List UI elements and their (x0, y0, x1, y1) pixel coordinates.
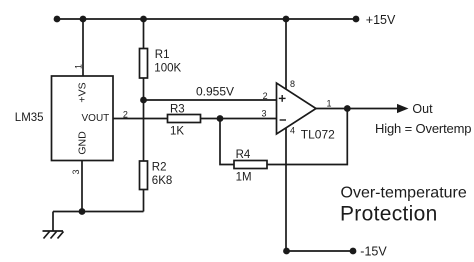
svg-text:GND: GND (76, 131, 88, 155)
junction rail pin1 (80, 16, 87, 23)
node ground junction (79, 208, 86, 215)
svg-text:Out: Out (412, 102, 433, 116)
op-amp plus sign (279, 95, 286, 102)
wire R2 bottom lead (143, 190, 145, 212)
resistor R1 (140, 49, 148, 79)
resistor R4 (234, 161, 267, 169)
junction rail left end (54, 16, 61, 23)
wire LM35 pin1 to rail (82, 19, 84, 76)
wire R1 bottom to R2 top (143, 78, 145, 161)
svg-text:3: 3 (262, 108, 267, 118)
svg-text:3: 3 (71, 169, 81, 174)
svg-text:1K: 1K (170, 126, 184, 138)
resistor R2 (140, 161, 148, 190)
svg-text:1: 1 (73, 64, 83, 69)
wire LM35 VOUT to R3 (113, 118, 168, 120)
svg-text:Protection: Protection (340, 203, 438, 226)
wire ground stub (52, 212, 54, 232)
junction +15V end (353, 16, 360, 23)
svg-text:-15V: -15V (360, 245, 387, 259)
wire bottom -15V rail (286, 250, 353, 252)
svg-text:R4: R4 (236, 149, 251, 161)
wire rail to R1 top (143, 19, 145, 49)
svg-text:+VS: +VS (76, 82, 88, 102)
node inverting input (217, 115, 224, 122)
wire node to R4 left (220, 119, 234, 165)
LM35 body (52, 76, 114, 161)
op-amp minus sign (280, 119, 286, 121)
junction -15V rail left (283, 248, 290, 255)
ground (43, 231, 64, 239)
arrow Out (397, 104, 409, 113)
junction -15V rail right (350, 248, 357, 255)
node output (344, 105, 351, 112)
op-amp U1 TL072 (277, 83, 317, 134)
svg-text:Over-temperature: Over-temperature (341, 185, 467, 202)
svg-text:1: 1 (327, 99, 332, 109)
wire R4 right to feedback riser (267, 109, 347, 165)
svg-text:100K: 100K (154, 63, 181, 75)
svg-text:4: 4 (290, 126, 295, 136)
wire op-amp pin4 to -15V rail (285, 128, 287, 251)
svg-text:VOUT: VOUT (82, 113, 110, 124)
svg-text:+15V: +15V (366, 13, 396, 27)
wire R3 to op-amp pin3 (201, 118, 277, 120)
wire ground run (53, 211, 144, 213)
svg-text:8: 8 (290, 79, 295, 89)
svg-text:R1: R1 (155, 49, 170, 61)
node divider tap (140, 97, 147, 104)
svg-text:TL072: TL072 (301, 128, 335, 142)
svg-text:R2: R2 (152, 162, 167, 174)
wire op-amp output (316, 108, 398, 110)
svg-text:High = Overtemp: High = Overtemp (375, 121, 471, 136)
junction rail R1 (140, 16, 147, 23)
wire divider node to op-amp pin2 (144, 99, 277, 101)
wire op-amp pin8 to rail (285, 19, 287, 89)
svg-text:2: 2 (123, 110, 128, 120)
svg-text:2: 2 (263, 91, 268, 101)
wire LM35 pin3 down (81, 161, 83, 212)
wire top +15V rail (57, 18, 356, 20)
svg-text:R3: R3 (170, 103, 185, 115)
resistor R3 (168, 115, 201, 123)
junction rail pin8 (283, 16, 290, 23)
svg-text:0.955V: 0.955V (196, 84, 234, 98)
svg-text:LM35: LM35 (15, 112, 44, 124)
svg-text:6K8: 6K8 (152, 175, 172, 187)
svg-text:1M: 1M (236, 172, 252, 184)
